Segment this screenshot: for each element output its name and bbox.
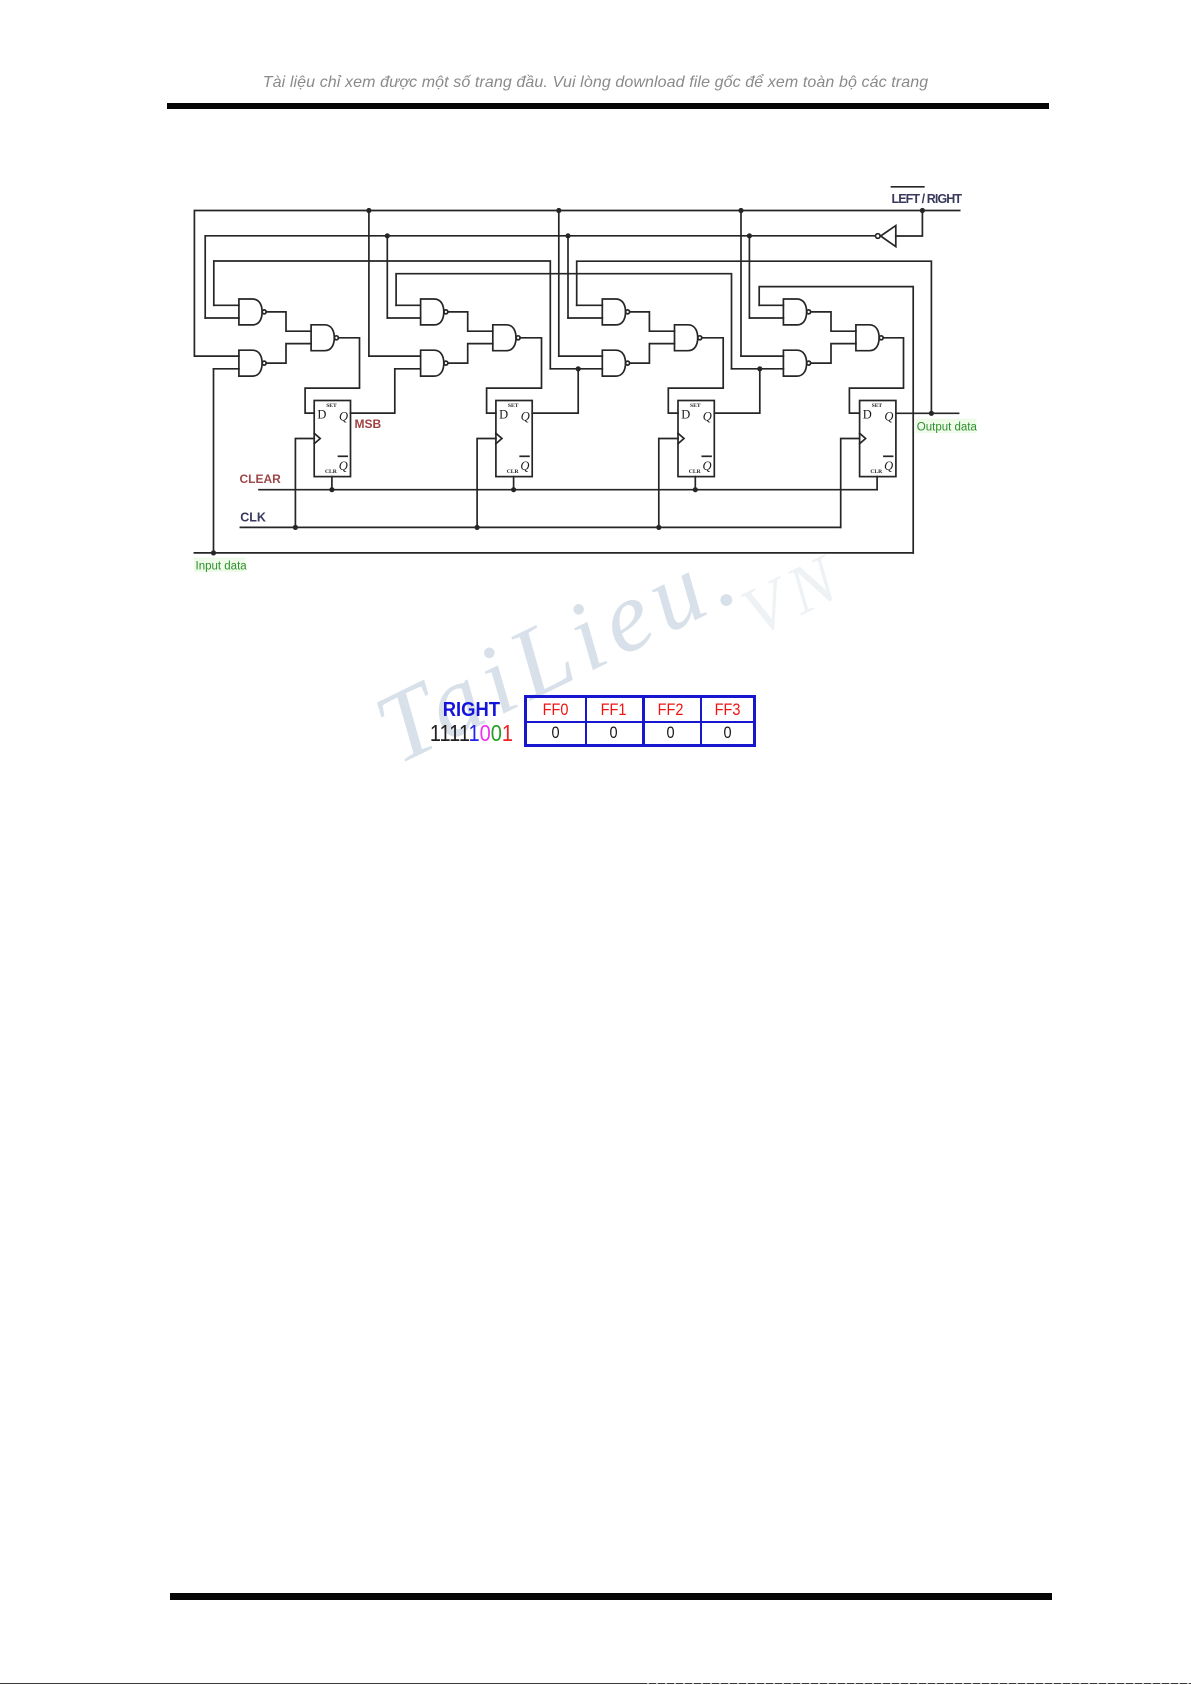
svg-text:D: D: [863, 407, 872, 421]
svg-text:MSB: MSB: [355, 417, 382, 431]
svg-text:Q: Q: [521, 410, 530, 424]
svg-text:SET: SET: [690, 403, 701, 409]
svg-text:SET: SET: [508, 403, 519, 409]
svg-text:D: D: [499, 407, 508, 421]
svg-text:D: D: [317, 407, 326, 421]
svg-text:Input data: Input data: [196, 561, 248, 573]
svg-text:Q: Q: [703, 459, 712, 473]
svg-text:Q: Q: [884, 459, 893, 473]
svg-text:Q: Q: [520, 459, 529, 473]
svg-text:Q: Q: [339, 410, 348, 424]
svg-text:CLR: CLR: [689, 469, 702, 475]
svg-text:CLR: CLR: [507, 469, 520, 475]
svg-text:SET: SET: [872, 403, 883, 409]
svg-text:Q: Q: [339, 459, 348, 473]
svg-text:LEFT / RIGHT: LEFT / RIGHT: [892, 192, 963, 206]
svg-text:CLK: CLK: [240, 511, 266, 525]
svg-text:CLR: CLR: [870, 469, 883, 475]
svg-text:Q: Q: [703, 410, 712, 424]
svg-text:CLR: CLR: [325, 469, 338, 475]
svg-text:Output data: Output data: [917, 422, 978, 434]
svg-text:CLEAR: CLEAR: [240, 472, 282, 486]
svg-text:D: D: [681, 407, 690, 421]
svg-text:SET: SET: [326, 403, 337, 409]
svg-text:Q: Q: [884, 410, 893, 424]
